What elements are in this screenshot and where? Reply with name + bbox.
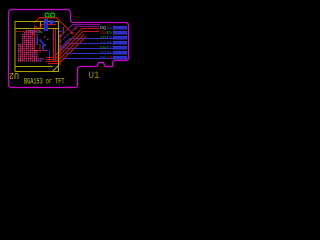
connector U1 pad 3 — [113, 36, 127, 40]
wire teal trace — [36, 31, 42, 33]
wire blue trace row 6 — [59, 54, 113, 60]
svg-text:U1: U1 — [89, 71, 100, 82]
wire purple inner-layer trace 2 — [63, 27, 99, 40]
pad blue small right — [50, 20, 56, 24]
net label DQ5 — [100, 52, 113, 56]
via red — [71, 28, 77, 35]
svg-text:U2: U2 — [9, 70, 19, 80]
component C1 pad 1 (green ring) — [45, 13, 49, 17]
connector U1 pad 2 — [113, 31, 127, 35]
vias purple dots — [34, 34, 48, 55]
wire red horizontal in U2 center — [34, 50, 48, 52]
wire red vertical pair inside U2 — [54, 29, 56, 62]
component C1 pad 2 (green ring) — [51, 13, 55, 17]
blue layer dashes right of U2 — [59, 31, 63, 47]
wire red trace r2 — [46, 32, 99, 60]
net label ADD — [100, 37, 113, 41]
wire red verticals in U2 center — [35, 26, 41, 53]
connector U1 pad 5 — [113, 46, 127, 50]
silkscreen yellow vertical near C1 — [40, 22, 42, 29]
net label DM13 — [100, 57, 113, 61]
via blue square — [32, 31, 36, 35]
connector U1 pad 6 — [113, 51, 127, 55]
wire blue trace row 4 — [58, 44, 113, 54]
net label GND — [100, 47, 113, 51]
wire red trace r3 — [46, 35, 84, 62]
wire red vertical along U2 right edge — [59, 34, 61, 66]
component U2 BGA pad grid — [18, 30, 43, 61]
svg-text:15: 15 — [107, 27, 113, 31]
wire red trace from C1 pads — [34, 18, 71, 32]
svg-text:BGA153 or TFT: BGA153 or TFT — [24, 78, 65, 87]
wire red vertical stub — [63, 27, 65, 34]
connector U1 pad 4 — [113, 41, 127, 45]
wire blue trace row 3 — [58, 39, 113, 51]
wire purple inner-layer trace 1 — [60, 25, 100, 37]
wire red trace r1 — [46, 29, 99, 58]
pad blue bar below C1 — [44, 19, 48, 31]
component U2 courtyard (yellow box) — [15, 22, 59, 72]
via/wire blue stub near U2 bottom — [49, 50, 51, 61]
silkscreen blue designator on U2 — [37, 37, 46, 51]
connector U1 pad 7 — [113, 56, 127, 60]
wire red dashed row below U2 top — [16, 31, 30, 33]
wire blue trace row 7 — [59, 59, 113, 64]
wire red crossing left of U2 center — [33, 26, 42, 35]
connector U1 pad 1 — [113, 26, 127, 30]
net label DQ15 — [100, 27, 113, 31]
net label GND — [100, 32, 113, 36]
wire red trace r4 — [48, 37, 86, 64]
wire red trace second horizontal — [41, 24, 56, 26]
wire blue trace row 5 — [58, 49, 113, 57]
svg-text:13: 13 — [107, 57, 113, 61]
board outline (magenta) — [9, 10, 129, 88]
net label A10 — [100, 42, 113, 46]
